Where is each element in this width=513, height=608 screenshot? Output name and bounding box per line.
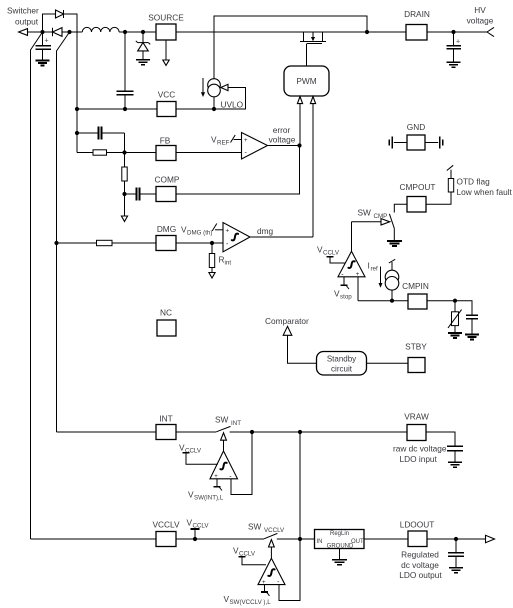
svg-text:STBY: STBY (405, 342, 427, 352)
svg-text:Switcher: Switcher (7, 6, 39, 16)
svg-text:GROUND: GROUND (327, 544, 354, 550)
current source Iref (385, 259, 399, 300)
svg-text:voltage: voltage (269, 135, 296, 145)
svg-text:int: int (225, 260, 232, 267)
switcher output arrow (19, 29, 28, 36)
wire VCCLV to switch (176, 538, 264, 540)
op-amp U2 dmg comparator (223, 223, 250, 252)
wire upper rail from UVLO column to drain (214, 16, 367, 79)
ground below C5 (465, 335, 479, 340)
svg-text:output: output (15, 17, 39, 27)
svg-text:SW(VCCLV ),L: SW(VCCLV ),L (230, 599, 272, 606)
svg-text:ref: ref (371, 266, 379, 273)
svg-text:VCCLV: VCCLV (264, 527, 285, 534)
pin GND (407, 122, 425, 150)
diode D1 (points right, top bypass) (56, 10, 64, 18)
pin SOURCE (148, 13, 184, 41)
wire dmg output to PWM (250, 236, 313, 238)
node P junction (453, 299, 457, 303)
ground below SWCMP (387, 241, 402, 246)
switch SWCMP (352, 208, 395, 229)
svg-text:+: + (214, 474, 218, 480)
svg-text:+: + (244, 138, 248, 144)
node VCCLV supply for U3 (317, 245, 345, 264)
wire VRAW to cap (426, 432, 455, 446)
wire INT row left (57, 431, 157, 433)
zener diode D4 (136, 32, 150, 60)
svg-text:LDO input: LDO input (400, 454, 438, 464)
wire DRAIN to HV (427, 31, 487, 33)
node Comparator label with arrow (265, 316, 317, 363)
svg-text:voltage: voltage (467, 16, 494, 26)
node VDMG(th) label (181, 224, 223, 237)
svg-text:+: + (456, 39, 460, 46)
pin VCC (157, 90, 176, 117)
node D junction (141, 30, 145, 34)
svg-text:DMG (th): DMG (th) (187, 230, 212, 237)
ground below RegLin (332, 549, 347, 565)
wire U3 plus input down (357, 277, 359, 301)
op-amp PWM block (284, 66, 329, 96)
svg-text:Standby: Standby (327, 355, 356, 364)
capacitor C7 ldo out (448, 539, 464, 568)
svg-text:INT: INT (231, 420, 241, 427)
node J junction (75, 131, 79, 135)
ground below C7 (449, 568, 463, 573)
node M junction (54, 241, 58, 245)
svg-text:CMP: CMP (374, 213, 388, 220)
wire VCCLV row right (277, 538, 315, 540)
node OTD flag label (457, 177, 513, 198)
wire RegLin out to LDOOUT (364, 538, 408, 540)
svg-text:dmg: dmg (257, 226, 274, 236)
ground below C1 (36, 61, 50, 66)
svg-text:DMG: DMG (157, 224, 176, 234)
svg-text:+: + (45, 38, 49, 45)
svg-text:+: + (226, 228, 230, 234)
ground below C8 (447, 62, 461, 67)
GND left external mark (389, 137, 407, 149)
node Regulated dc voltage label (399, 550, 442, 581)
wire U4 minus feedback loop (231, 432, 252, 495)
node Vstop threshold (334, 277, 352, 301)
wire INT to switch (176, 431, 216, 433)
svg-text:DRAIN: DRAIN (404, 9, 430, 19)
svg-text:VCCLV: VCCLV (152, 520, 180, 530)
wire standby to STBY (367, 362, 409, 364)
svg-text:SW: SW (358, 208, 372, 218)
UVLO sense arrowhead (221, 84, 228, 90)
op-amp U5 VCCLV comparator (258, 547, 285, 586)
node H junction (75, 107, 79, 111)
svg-text:raw dc voltage: raw dc voltage (393, 444, 447, 454)
ground below thermistor (448, 333, 462, 338)
wire LDOOUT to output arrow (427, 538, 486, 540)
capacitor C6 raw (447, 446, 463, 462)
wire main rail y=32 (28, 31, 53, 33)
wire top loop right into VCC column (64, 14, 77, 109)
wire DMG row from left column (57, 242, 97, 244)
wire U5 minus feedback loop (279, 539, 300, 601)
svg-text:SOURCE: SOURCE (148, 13, 184, 23)
ground below C6 (448, 462, 462, 467)
diode D2 (points left on main rail) (53, 28, 63, 37)
node O junction (390, 299, 394, 303)
wire top loop left (43, 14, 56, 32)
wire INT row right (230, 431, 407, 433)
node VSW(VCCLV)L threshold (224, 585, 272, 606)
transistor Q1 power MOSFET (300, 32, 326, 66)
svg-text:error: error (273, 125, 291, 135)
node C junction (123, 30, 127, 34)
node VREF label (211, 135, 242, 147)
svg-text:circuit: circuit (331, 365, 353, 374)
svg-text:UVLO: UVLO (221, 100, 244, 110)
svg-text:I: I (368, 261, 370, 271)
pin NC (157, 308, 176, 337)
pin VCCLV (152, 520, 180, 547)
wire CMPIN row (358, 300, 408, 302)
svg-text:HV: HV (474, 5, 486, 15)
svg-text:OTD flag: OTD flag (457, 177, 491, 187)
capacitor C3 feedback (77, 126, 125, 152)
svg-text:RegLin: RegLin (330, 531, 349, 537)
wire VCC row (77, 108, 157, 110)
wire comparator output up to switch (351, 222, 353, 252)
node L junction (122, 192, 126, 196)
Iref current arrow (368, 261, 383, 288)
PWM input arrow 2 (310, 97, 315, 238)
capacitor C1 polarized (35, 32, 51, 61)
op-amp U4 INT comparator (210, 440, 238, 480)
svg-text:INT: INT (159, 414, 172, 424)
wire CMPOUT to switch (394, 204, 407, 212)
svg-text:CMPIN: CMPIN (402, 281, 429, 291)
node Rint label (219, 255, 232, 267)
pin VRAW (404, 412, 429, 441)
pin DMG (156, 224, 176, 251)
standby circuit block (317, 352, 367, 376)
GND right external mark (425, 137, 443, 149)
svg-text:Comparator: Comparator (265, 316, 309, 326)
current source UVLO (208, 79, 221, 109)
node VCCLV supply for U4 (179, 443, 218, 465)
node B junction (67, 30, 71, 34)
capacitor C8 bulk (446, 32, 460, 62)
node N junction (210, 241, 214, 245)
node U junction (454, 537, 458, 541)
svg-text:REF: REF (217, 140, 230, 147)
node R junction (298, 430, 302, 434)
svg-text:SW: SW (215, 415, 229, 425)
wire DMG to comparator (176, 242, 223, 244)
ground below zener (136, 60, 150, 65)
pin CMPIN (402, 281, 429, 309)
node VCCLV supply marker (187, 518, 210, 540)
wire COMP to error node (176, 146, 300, 195)
svg-text:IN: IN (317, 539, 323, 545)
capacitor C2 (VCC reservoir) (116, 32, 133, 109)
node A junction (40, 30, 44, 34)
node G junction VCC rail (212, 107, 216, 111)
wire diagonal to left drop (31, 32, 43, 50)
pin INT (156, 414, 176, 440)
node F junction (451, 30, 455, 34)
inductor L1 (82, 27, 119, 32)
switch SWVCCLV (248, 522, 285, 548)
pin FB (156, 136, 176, 161)
resistor R3 dmg (97, 240, 157, 245)
node HV voltage label (467, 5, 494, 26)
PWM input arrow 1 (297, 97, 302, 146)
wire inductor to SOURCE (119, 31, 156, 33)
svg-text:VCC: VCC (158, 90, 176, 100)
RegLin block (315, 530, 365, 550)
HV chevron arrow (487, 27, 494, 36)
node S junction (193, 537, 197, 541)
svg-text:Low when fault: Low when fault (457, 187, 513, 197)
wire left column down (76, 109, 78, 153)
svg-text:VRAW: VRAW (404, 412, 429, 422)
switch SWINT (215, 415, 241, 441)
resistor R5 OTD pullup (426, 165, 454, 204)
thermistor RT1 (448, 301, 462, 333)
wire VCCLV row left (31, 538, 157, 540)
pin CMPOUT (400, 182, 436, 212)
node K junction (122, 150, 126, 154)
svg-text:GND: GND (407, 122, 425, 132)
node Q junction (250, 430, 254, 434)
ground arrow below Rint (209, 273, 215, 279)
wire SOURCE to MOSFET (176, 31, 406, 33)
wire CMPIN to externals (427, 301, 472, 316)
node E junction (365, 30, 369, 34)
node VCCLV supply for U5 (233, 546, 266, 565)
wire long drop to LDO row (299, 432, 301, 539)
wire diode to inductor (62, 31, 82, 33)
svg-text:stop: stop (340, 294, 352, 301)
wire FB to error amp (176, 152, 242, 154)
svg-text:CCLV: CCLV (323, 250, 340, 257)
node raw dc voltage label (393, 444, 447, 464)
pin STBY (405, 342, 427, 373)
node I junction (123, 107, 127, 111)
wire UVLO loop (176, 88, 246, 110)
svg-text:SW: SW (248, 522, 262, 532)
node Switcher output label (7, 6, 39, 27)
svg-text:FB: FB (160, 136, 171, 146)
pin COMP (155, 175, 180, 202)
svg-text:NC: NC (160, 308, 172, 318)
resistor R1 feedback (77, 150, 156, 155)
svg-text:dc voltage: dc voltage (401, 560, 439, 570)
svg-text:LDOOUT: LDOOUT (400, 520, 435, 530)
svg-text:LDO output: LDO output (399, 570, 442, 580)
source down arrow ground (163, 40, 169, 65)
wire diagonal to second drop (57, 32, 70, 51)
op-amp U1 error amplifier (242, 133, 268, 160)
LDO output arrow (486, 535, 495, 542)
ground arrow below comp divider (121, 194, 127, 222)
capacitor C5 cmp filter (466, 315, 478, 334)
UVLO current arrow (201, 78, 205, 97)
svg-text:PWM: PWM (296, 76, 316, 86)
capacitor C4 comp (125, 187, 157, 200)
svg-text:CMPOUT: CMPOUT (400, 182, 436, 192)
svg-text:SW(INT),L: SW(INT),L (194, 495, 224, 502)
node T junction (298, 537, 302, 541)
wire switch to ground (393, 228, 395, 241)
op-amp U3 CMP comparator (338, 251, 365, 278)
svg-text:Regulated: Regulated (401, 550, 439, 560)
pin LDOOUT (400, 520, 435, 547)
resistor R2 divider (122, 153, 127, 195)
pin DRAIN (404, 9, 430, 40)
resistor R4 Rint (209, 243, 214, 273)
node VSW(INT)L threshold (188, 479, 224, 502)
wire error amp output (268, 145, 300, 147)
node error voltage (269, 125, 302, 148)
svg-text:COMP: COMP (155, 175, 180, 185)
